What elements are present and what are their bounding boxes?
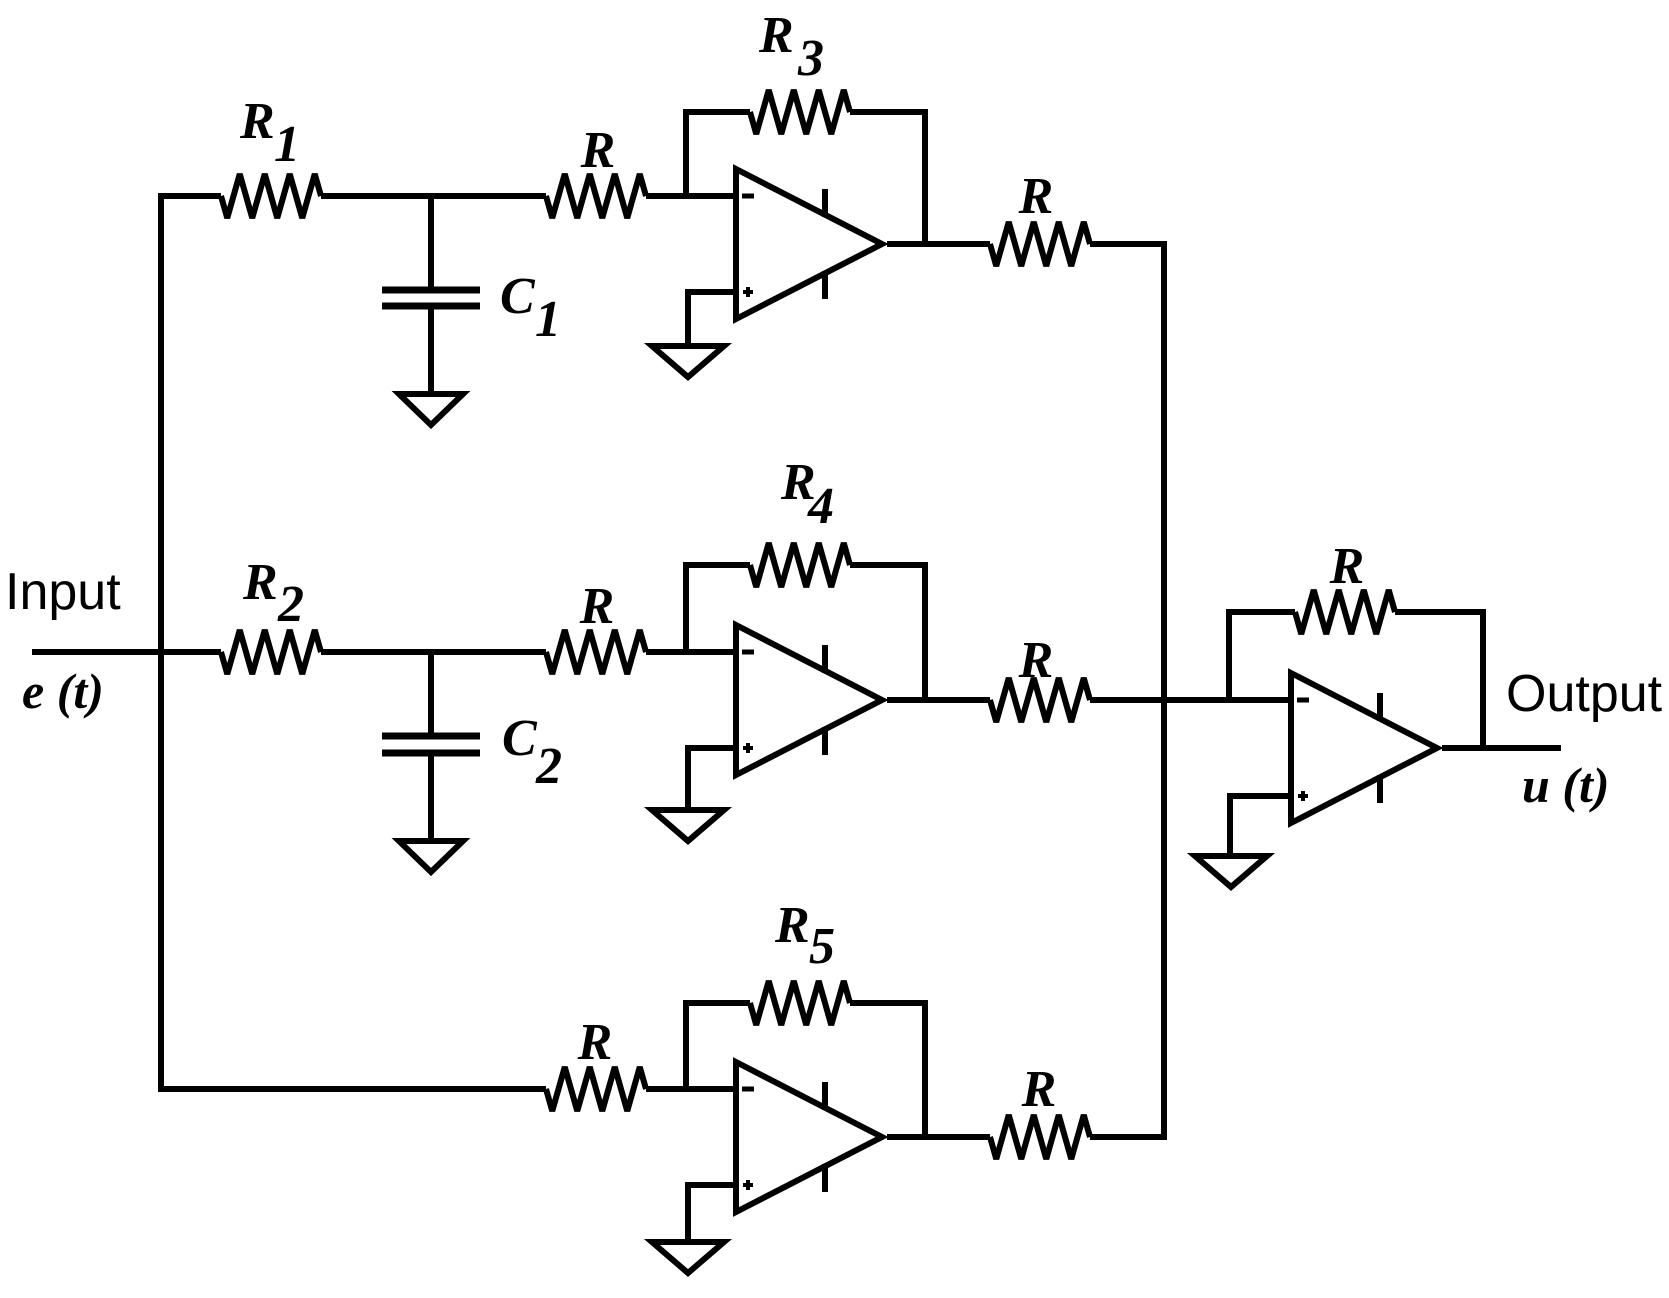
wire: U1 feedback tap up and left feedback run (686, 112, 750, 196)
svg-text:R: R (239, 93, 275, 150)
ground (below C2) (399, 841, 463, 872)
wire: U3 feedback right run down to output (850, 1003, 925, 1137)
op-amp U4 (1291, 673, 1437, 823)
ground (U4 + input) (1195, 856, 1267, 887)
wire: top branch, R1 node to R (321, 193, 546, 199)
resistor R (middle branch input) (546, 630, 646, 674)
ground (U3 + input) (652, 1242, 724, 1273)
wire: middle branch, R to op-amp U2 inverting input (646, 649, 736, 655)
resistor R4 (U2 feedback) (750, 543, 850, 587)
svg-text:2: 2 (277, 576, 304, 633)
wire: U1 output to R (887, 241, 990, 247)
resistor R (U3 output) (990, 1115, 1090, 1159)
op-amp U2 (736, 625, 882, 775)
svg-text:R: R (1329, 538, 1365, 595)
ground (U1 + input) (652, 346, 724, 377)
svg-text:R: R (580, 122, 616, 179)
wire: U4 feedback right run down to output (1395, 612, 1483, 748)
svg-text:e (t): e (t) (22, 663, 104, 719)
wire: U2 output to R (887, 697, 990, 703)
svg-text:R: R (774, 897, 810, 954)
wire: U2 feedback right run down to output (850, 565, 925, 700)
wire: input lead (32, 649, 221, 655)
resistor R3 (U1 feedback) (750, 90, 850, 134)
svg-text:1: 1 (535, 291, 561, 348)
svg-text:1: 1 (274, 116, 300, 173)
svg-text:R: R (1021, 1061, 1057, 1118)
resistor R (top branch input) (546, 174, 646, 218)
wire: U1 feedback right run down to output (850, 112, 925, 244)
op-amp U3 (736, 1062, 882, 1212)
capacitor C1 (428, 196, 434, 290)
svg-text:2: 2 (535, 738, 562, 795)
ground (U2 + input) (652, 810, 724, 841)
wire: U2 feedback tap up and left feedback run (686, 565, 750, 652)
svg-text:3: 3 (797, 30, 824, 87)
svg-text:C: C (502, 710, 538, 767)
resistor R2 (221, 630, 321, 674)
wire: bottom branch, R to op-amp U3 inverting input (646, 1086, 736, 1092)
svg-text:R: R (1018, 168, 1054, 225)
svg-text:R: R (242, 554, 278, 611)
capacitor C2 (428, 652, 434, 736)
wire: U3 feedback tap up and left feedback run (686, 1003, 750, 1089)
wire: right summing bus with top and bottom corners (1090, 244, 1164, 1137)
resistor R (U1 output) (990, 222, 1090, 266)
op-amp U1 (736, 169, 882, 319)
wire: left input bus with top branch and bottom branch corners (161, 196, 546, 1089)
wire: U4 output lead (1442, 745, 1561, 751)
resistor R (U4 feedback) (1295, 590, 1395, 634)
resistor R5 (U3 feedback) (750, 981, 850, 1025)
svg-text:Input: Input (5, 563, 121, 621)
wire: U4 non-inverting input to ground (1230, 796, 1291, 853)
resistor R1 (221, 174, 321, 218)
svg-text:Output: Output (1506, 665, 1663, 723)
resistor R (bottom branch input) (546, 1067, 646, 1111)
wire: U1 non-inverting input to ground (688, 292, 736, 343)
resistor R (U2 output) (990, 678, 1090, 722)
wire: U3 non-inverting input to ground (688, 1185, 736, 1239)
wire: U4 feedback tap up and left feedback run (1229, 612, 1295, 700)
svg-text:4: 4 (807, 478, 834, 535)
svg-text:R: R (577, 1014, 613, 1071)
svg-text:C: C (500, 268, 536, 325)
svg-text:u (t): u (t) (1522, 757, 1610, 813)
svg-text:R: R (758, 7, 794, 64)
svg-text:R: R (579, 578, 615, 635)
wire: middle branch, R2 node to R (321, 649, 546, 655)
wire: U3 output to R (887, 1134, 990, 1140)
svg-text:R: R (1018, 632, 1054, 689)
wire: top branch, R to op-amp U1 inverting input (646, 193, 736, 199)
ground (below C1) (399, 394, 463, 425)
wire: U2 non-inverting input to ground (688, 748, 736, 807)
wire: summing node to op-amp U4 inverting input (1090, 697, 1291, 703)
svg-text:5: 5 (809, 918, 835, 975)
